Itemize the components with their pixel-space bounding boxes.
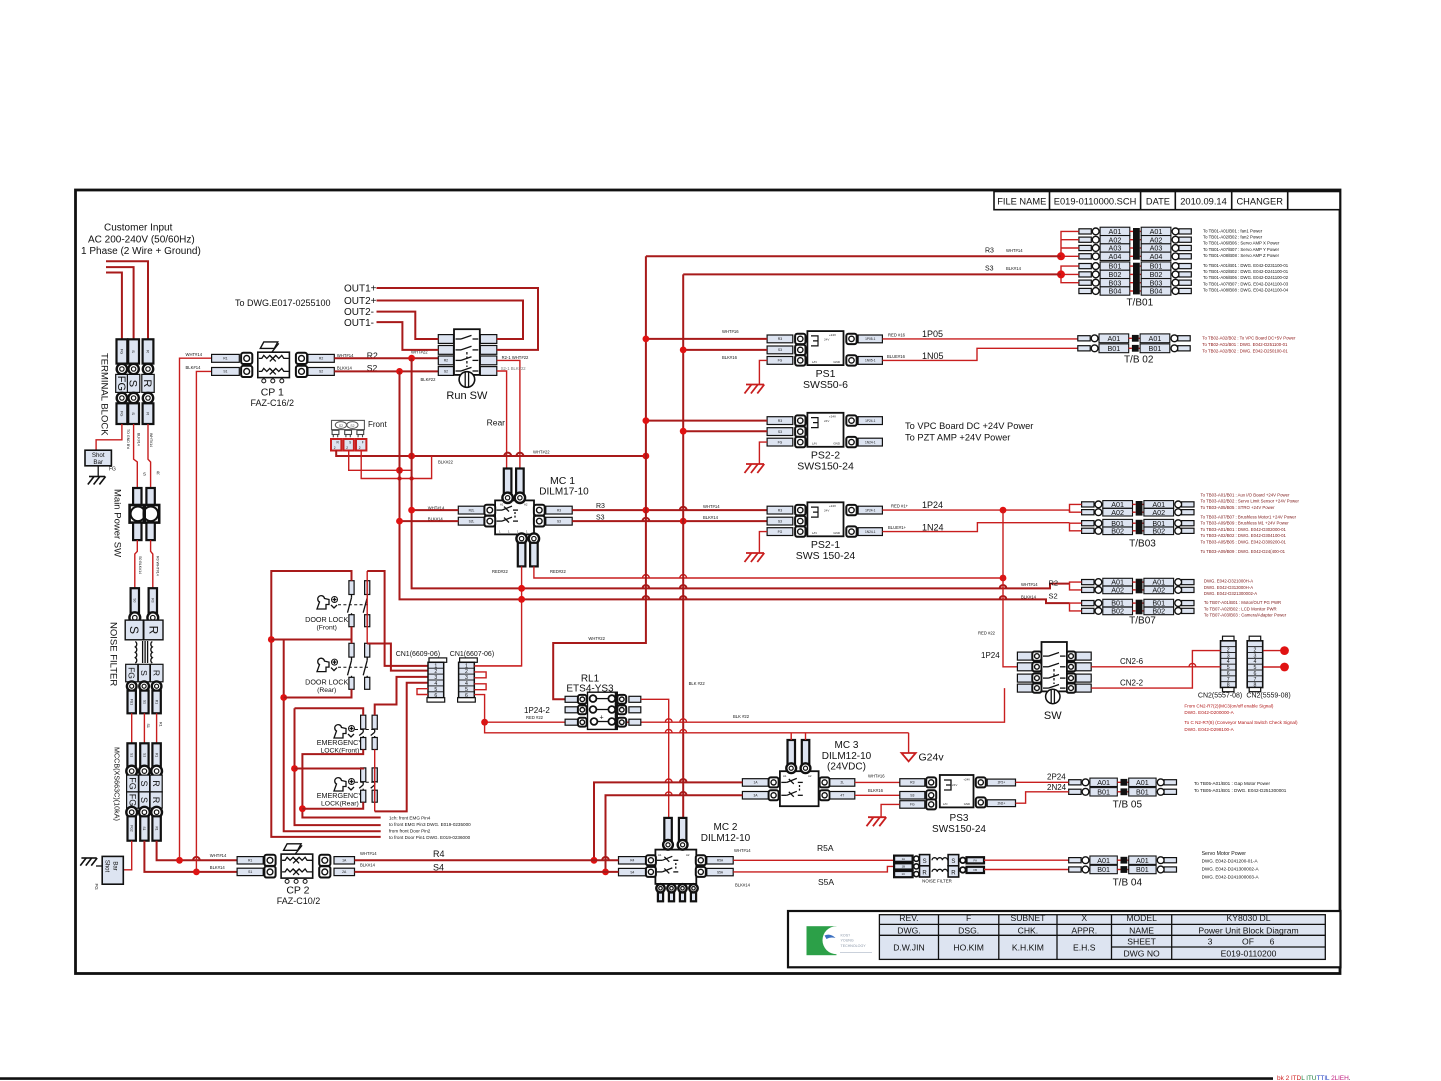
wire S to main power SW [134,424,138,488]
svg-text:BLUE#16: BLUE#16 [887,354,906,359]
terminal block T/B07 [1082,580,1094,585]
svg-text:B04: B04 [1109,287,1122,296]
svg-text:A1: A1 [500,503,504,507]
svg-text:SWS 150-24: SWS 150-24 [796,550,856,562]
svg-text:S: S [131,412,136,415]
svg-text:FG: FG [127,777,137,790]
wire MC3 out row1 to PS3 [855,781,900,783]
power supply PS3 [900,779,925,787]
svg-text:MC 3: MC 3 [835,740,859,751]
svg-text:BLK#16: BLK#16 [722,355,738,360]
power supply PS1 [767,335,793,343]
svg-text:R2: R2 [319,357,323,361]
svg-text:2L: 2L [841,781,845,785]
svg-text:To TB03-A07/B07 : Brushless M: To TB03-A07/B07 : Brushless Motor1 +24V … [1201,515,1297,520]
junction R2 [408,355,415,362]
svg-text:+24V: +24V [829,333,836,337]
hops on R2 S2 runs [643,585,650,588]
junction front pin2 [396,467,403,474]
wire S4 run [355,871,619,873]
ground PS3 [867,817,887,826]
svg-text:To TB03-A01/B01 : DWG. E042-D: To TB03-A01/B01 : DWG. E042-D302000-01 [1201,527,1287,532]
svg-text:DOOR LOCK: DOOR LOCK [305,615,348,624]
vertical bus TB03 to SW [1003,510,1017,667]
svg-text:1N05-1: 1N05-1 [865,359,876,363]
MC3 left lugs [742,779,768,787]
terminal block T/B05 [1069,780,1081,785]
svg-text:S: S [923,859,927,865]
wire R3 top run [646,255,1061,257]
svg-text:to front Door Pin1 DWG. E019-: to front Door Pin1 DWG. E019-0236000 [389,835,471,840]
svg-text:BLUE#1+: BLUE#1+ [888,525,907,530]
svg-text:CN2(5559-08): CN2(5559-08) [1246,693,1290,700]
svg-text:DWG NO: DWG NO [1123,948,1160,958]
svg-text:S2L: S2L [469,519,475,523]
svg-text:R5A: R5A [817,843,834,853]
noise filter lower boxes [126,664,138,682]
wire OUT1+ [377,288,539,350]
ground for shot bar 2 [96,865,102,867]
junction S1 bus [193,869,200,876]
svg-text:A2: A2 [524,503,528,507]
svg-text:S3: S3 [778,519,782,523]
svg-text:2P2+: 2P2+ [998,781,1006,785]
svg-text:1N24-1: 1N24-1 [865,440,876,444]
svg-text:1C: 1C [902,872,906,876]
svg-text:(Rear): (Rear) [317,687,336,694]
svg-text:WHT#14: WHT#14 [186,352,203,357]
svg-text:Bar: Bar [93,459,103,466]
svg-text:KOS?: KOS? [841,934,851,938]
svg-text:WHT#14: WHT#14 [210,853,227,858]
svg-text:Bar: Bar [112,861,118,870]
wire emergency rear col2 to CN1 [375,683,428,812]
junction A04 [1057,252,1065,260]
junction S4 [602,869,609,876]
MC1 left lugs [458,506,484,514]
svg-text:R: R [146,626,160,635]
wire R5A run [733,859,894,861]
svg-text:S3: S3 [985,266,994,273]
bottom page line [0,1077,1273,1080]
svg-text:2N2+: 2N2+ [997,801,1005,805]
svg-text:S0: S0 [133,598,137,602]
wire S5A run [733,866,894,872]
wire 1N05 run [882,348,1077,360]
svg-text:BLK #22: BLK #22 [733,714,750,719]
svg-text:To TB07-A03/B03 : Camera/Adapt: To TB07-A03/B03 : Camera/Adapter Power [1204,613,1287,618]
title block outline [788,911,1341,967]
title block grid [879,915,1325,960]
svg-text:L/N: L/N [943,802,947,806]
svg-text:Servo Motor Power: Servo Motor Power [1202,851,1247,857]
svg-text:R4: R4 [630,859,634,863]
wire front pin1 to WHT#22 run [336,451,646,457]
svg-text:B01: B01 [1107,344,1120,353]
wire emergency rear bottom [302,802,363,809]
svg-text:To TB07-A02/B02 : LCD Monitor: To TB07-A02/B02 : LCD Monitor PWR [1204,606,1277,611]
svg-text:BLK#14: BLK#14 [735,883,751,888]
terminal block column FG [117,339,128,363]
junction R4 [591,857,598,864]
svg-text:S: S [127,626,141,634]
terminal block column R [143,339,154,363]
front pin boxes [331,439,341,451]
bus 1P24-2 y722 [485,688,1005,722]
svg-text:To TB05-A01/B01 : DWG. E042-D2: To TB05-A01/B01 : DWG. E042-D251300001 [1194,788,1287,793]
contactor MC1 [495,500,534,534]
svg-text:FG2: FG2 [130,825,134,831]
svg-text:S5A: S5A [818,877,834,887]
svg-text:Front: Front [368,420,387,429]
ground PS1 [745,385,765,394]
contactor MC3 [780,771,819,806]
MC1 bottom lugs [516,533,526,543]
svg-text:R: R [951,870,956,876]
door lock rear [317,658,329,671]
svg-text:S: S [139,797,149,803]
svg-text:A02: A02 [1152,508,1165,517]
svg-text:24V: 24V [952,783,957,787]
svg-text:CP 1: CP 1 [261,387,284,399]
svg-text:DILM12-10: DILM12-10 [701,833,751,844]
svg-text:S1: S1 [142,700,146,704]
svg-text:2: 2 [346,446,348,450]
svg-text:FG: FG [115,376,127,391]
svg-text:from front Door Pin2: from front Door Pin2 [389,829,431,834]
svg-text:1P24-2: 1P24-2 [524,706,550,715]
front connector [332,420,365,429]
MC3 top lugs [788,740,796,765]
wire PS1 R3 in [646,338,767,340]
svg-text:DWG. E042-D241000003-A: DWG. E042-D241000003-A [1202,875,1260,880]
wire 1P05 run [882,338,1077,340]
svg-text:To TB03-A05/B05 : STRO +24V P: To TB03-A05/B05 : STRO +24V Power [1201,505,1276,510]
company logo [807,926,837,955]
wire T/B07 A stubs [1070,582,1082,590]
wire MCCB FG to shot bar 2 [123,841,131,870]
svg-text:1P24-1: 1P24-1 [865,419,876,423]
svg-text:Rear: Rear [487,418,506,428]
svg-text:WHT#14: WHT#14 [360,851,377,856]
svg-text:24V: 24V [824,337,829,341]
wire door front col1 bottom [351,627,353,640]
svg-text:FG: FG [109,467,116,473]
svg-text:To TB02-A01/B01 : DWG. E042-D2: To TB02-A01/B01 : DWG. E042-D251100-01 [1202,342,1288,347]
wire S2 run [334,370,438,372]
svg-text:To TB02-A02/B02 : To VPC Board: To TB02-A02/B02 : To VPC Board DC+5V Pow… [1202,336,1296,341]
svg-text:To PZT AMP +24V Power: To PZT AMP +24V Power [905,433,1010,443]
svg-text:GND: GND [833,531,841,535]
svg-text:S3: S3 [596,514,605,521]
svg-text:DWG. E042-D298100-A: DWG. E042-D298100-A [1184,727,1234,732]
svg-text:CHK.: CHK. [1018,925,1039,935]
svg-text:R3: R3 [985,248,994,255]
svg-text:MC 2: MC 2 [714,822,738,833]
svg-text:A01: A01 [1097,778,1110,787]
door area left bus 3 [284,640,381,832]
svg-text:6: 6 [1270,936,1275,946]
wire OUT2+ [377,301,524,340]
svg-text:S1: S1 [146,724,150,728]
wire 1P24 run [882,509,1069,511]
MC2 left lugs [619,857,647,864]
svg-text:S1: S1 [142,827,146,831]
svg-text:S3: S3 [910,794,914,798]
svg-text:BLK#16: BLK#16 [868,788,884,793]
svg-text:E019-0110200: E019-0110200 [1221,948,1277,958]
wire NF2 to TB04 B [984,869,1069,871]
svg-text:S: S [951,859,955,865]
wire MCCB S1 out [144,841,237,872]
svg-text:To TB01-A07/B07 : DWG. E042-D: To TB01-A07/B07 : DWG. E042-D241100-03 [1203,281,1289,286]
svg-text:F: F [362,441,364,445]
svg-text:S5A: S5A [717,870,724,874]
Run SW knob [459,372,475,388]
svg-text:S3: S3 [778,430,782,434]
wire customer input FG [106,273,122,340]
svg-text:RED #22: RED #22 [978,631,996,636]
svg-text:Main Power SW: Main Power SW [112,489,123,557]
svg-text:BLK#22: BLK#22 [421,377,437,382]
wire MC3 in row1 [594,782,742,860]
svg-text:R2: R2 [444,359,448,363]
svg-text:A01: A01 [1097,856,1110,865]
svg-text:DSG.: DSG. [958,925,979,935]
svg-text:S: S [139,780,149,786]
svg-text:24V: 24V [824,509,829,513]
wire R to main power SW [148,424,151,488]
MC1 right lugs [534,505,545,516]
wire MC1 S3 run to PS2-1 [572,520,767,522]
wire 2N24 [1016,792,1069,803]
connector CN1(6609-06) [429,658,447,662]
svg-text:R1: R1 [154,753,158,757]
svg-text:A01: A01 [1136,856,1149,865]
wire emergency rear top [295,767,364,770]
svg-text:R3: R3 [778,419,782,423]
svg-text:MODEL: MODEL [1126,913,1157,923]
svg-text:NOISE FILTER: NOISE FILTER [108,622,119,686]
svg-text:BLK#22: BLK#22 [438,460,454,465]
wires noise filter to MCCB [131,713,133,743]
svg-text:OUT1-: OUT1- [344,318,374,329]
wire R2-1 to MC1 [497,360,520,468]
main power SW [133,488,141,506]
svg-text:To TB05-A01/B01 : Gap Motor Po: To TB05-A01/B01 : Gap Motor Power [1194,781,1270,786]
wire PS2-1 FG ground [759,532,767,553]
svg-text:R: R [146,412,151,415]
svg-text:B01: B01 [1097,865,1110,874]
svg-text:RED #16: RED #16 [888,332,906,337]
svg-text:NAME: NAME [1129,925,1154,935]
svg-text:OUT2-: OUT2- [344,307,374,318]
noise filter [131,588,139,613]
svg-text:4T: 4T [840,793,844,797]
svg-text:2P24: 2P24 [1047,773,1066,782]
svg-text:2010.09.14: 2010.09.14 [1180,196,1227,206]
svg-text:Run SW: Run SW [446,390,488,402]
svg-text:WHT#14: WHT#14 [703,504,720,509]
noise filter coils [135,642,136,664]
G24V arrow [902,753,916,761]
svg-text:A04: A04 [1150,252,1163,261]
svg-text:REV.: REV. [899,913,918,923]
svg-text:FG: FG [778,440,783,444]
svg-text:Customer Input: Customer Input [104,223,173,234]
svg-text:T/B01: T/B01 [1126,298,1153,309]
svg-text:BLK#14: BLK#14 [337,366,353,371]
svg-text:R3: R3 [557,508,561,512]
junction door bus 3 [280,694,287,701]
wire door rear bottom [284,689,352,697]
wire MCCB R1 out [157,841,238,861]
wire CN1-1 pin5 pin6 jumper [417,689,428,695]
svg-text:D.W.JIN: D.W.JIN [893,943,925,953]
emergency lock front [334,725,346,738]
svg-text:To TB03-A09/B09 : Brushless M: To TB03-A09/B09 : Brushless M1 +24V Powe… [1201,521,1290,526]
svg-text:R1: R1 [158,722,162,727]
svg-text:B01: B01 [1136,787,1149,796]
wire CN1-2 pin2-3 jumper [474,672,486,678]
wire emergency front col2 to CN1 [375,677,428,715]
svg-text:R1: R1 [248,859,252,863]
svg-text:1N24: 1N24 [922,523,944,533]
svg-text:BLK #22: BLK #22 [689,681,706,686]
svg-text:NOISE FILTER: NOISE FILTER [922,879,952,884]
junction S2 [396,368,403,375]
svg-text:1 Phase (2 Wire + Ground): 1 Phase (2 Wire + Ground) [81,246,201,257]
svg-text:B01: B01 [1097,787,1110,796]
terminal block T/B02 [1078,336,1090,341]
drawing border frame [76,190,1341,974]
svg-text:S: S [139,670,149,676]
svg-text:CHANGER: CHANGER [1236,196,1283,206]
svg-text:R0 WHT#14: R0 WHT#14 [156,556,160,576]
svg-text:BLK#14: BLK#14 [1021,595,1037,600]
svg-text:R2-1 WHT#22: R2-1 WHT#22 [502,355,529,360]
svg-text:S: S [143,472,146,477]
wire PS3 FG ground [881,804,900,816]
svg-text:L/N: L/N [812,442,817,446]
wire 2P24 [1016,781,1069,783]
svg-text:TECHNOLOGY: TECHNOLOGY [841,944,867,948]
RL1 left lugs [565,696,578,702]
wire S3 top run [683,273,1061,275]
junction emergency mid [291,765,298,772]
svg-text:S4: S4 [630,870,634,874]
svg-text:DWG. E042-D241200-01-A: DWG. E042-D241200-01-A [1202,859,1259,864]
svg-text:B02: B02 [1111,607,1124,616]
svg-text:T/B07: T/B07 [1129,616,1156,627]
wire CN1-2 pin4-5 jumper [474,684,486,690]
svg-text:S2: S2 [1049,591,1058,600]
svg-text:1A: 1A [902,857,906,861]
svg-text:To TB01-A08/B08 : Servo AMP Z: To TB01-A08/B08 : Servo AMP Z Power [1203,253,1280,258]
wire PS1 S3 in [683,349,767,351]
wire NF2 to TB04 A [984,859,1069,861]
svg-text:Power Unit Block Diagram: Power Unit Block Diagram [1198,925,1298,935]
svg-text:1P24: 1P24 [981,651,1000,660]
svg-text:R1: R1 [154,700,158,704]
svg-text:A01: A01 [1107,334,1120,343]
svg-text:24V: 24V [824,419,829,423]
contactor MC2 [655,850,696,884]
svg-text:bk 2 lTDL lTUTTlL 2LlEH.: bk 2 lTDL lTUTTlL 2LlEH. [1277,1075,1351,1081]
wire CN2-2 [1091,651,1220,689]
svg-text:FG: FG [119,411,124,417]
svg-text:+: + [600,715,604,722]
ground PS2-2 [745,464,765,473]
svg-text:BLK#14: BLK#14 [1006,266,1022,271]
svg-text:R3: R3 [596,503,605,510]
bus R3 vertical [553,256,646,699]
svg-text:A01: A01 [1149,334,1162,343]
svg-text:(Front): (Front) [316,624,336,631]
svg-text:B02: B02 [1111,526,1124,535]
wire T/B03 A stubs [1070,504,1082,512]
svg-text:A01: A01 [1136,778,1149,787]
wire MC3 out row2 to PS3 [855,794,900,796]
svg-text:1ch: front EMG Pin4: 1ch: front EMG Pin4 [389,816,431,821]
svg-text:To TB03-A09/B09 : DWG. E042-D: To TB03-A09/B09 : DWG. E042-D24(400-01 [1201,549,1286,554]
emergency bus 5 [295,768,303,770]
wire T/B01 A stubs [1061,231,1079,256]
wire PS2-2 S3 in [683,430,767,432]
svg-text:FG1: FG1 [130,699,134,705]
svg-text:FG: FG [127,794,137,807]
svg-text:To TB01-A01/B01 : DWG. E042-D: To TB01-A01/B01 : DWG. E042-D231100-01 [1203,263,1289,268]
wire MC1 in R [412,509,459,511]
svg-text:R: R [151,780,161,787]
wire G24V drop [908,733,910,753]
svg-text:DOOR LOCK: DOOR LOCK [305,677,348,686]
svg-text:PS3: PS3 [950,813,969,824]
svg-text:S2-1 BLK#22: S2-1 BLK#22 [501,366,527,371]
svg-text:B01: B01 [1136,865,1149,874]
vertical bus S to CP1 [196,371,211,872]
door area left bus 2 [271,640,351,644]
svg-text:S2: S2 [350,424,354,428]
svg-text:To TB02-A02/B02 : DWG. E042-D2: To TB02-A02/B02 : DWG. E042-D250100-01 [1202,349,1288,354]
bus y733 to MC3 [485,722,909,733]
svg-text:FAZ-C10/2: FAZ-C10/2 [277,896,321,906]
wire front pin2 [349,451,412,471]
wire MC1 bottom lug1 down to CN1-2 [474,566,521,666]
svg-text:MCCB(XS663C)(10kA): MCCB(XS663C)(10kA) [113,747,122,821]
svg-text:(24VDC): (24VDC) [827,762,866,773]
svg-text:To TB03-A02/B02 : DWG. E042-D: To TB03-A02/B02 : DWG. E042-D304100-01 [1201,533,1287,538]
svg-text:CN1(6609-06): CN1(6609-06) [396,651,440,658]
wire main SW to noise filter R [151,540,153,588]
svg-text:L/N: L/N [812,360,817,364]
svg-text:OUT2+: OUT2+ [344,296,377,307]
svg-text:Shot: Shot [92,452,105,459]
svg-text:To TB03-A05/B05 : DWG. E042-D: To TB03-A05/B05 : DWG. E042-D309200-01 [1201,539,1287,544]
svg-text:A02: A02 [1111,508,1124,517]
shot bar 2 [102,856,123,884]
svg-text:BLK#14: BLK#14 [210,865,226,870]
svg-text:G24v: G24v [919,752,945,764]
ground for shot bar 1 [97,466,99,477]
vertical bus R to CP1 [180,358,212,860]
svg-text:SWS50-6: SWS50-6 [803,379,848,391]
wire MC1 bottom lug2 to TB03 bus [534,566,1003,578]
svg-text:1P05: 1P05 [922,329,943,339]
svg-text:FILE NAME: FILE NAME [997,196,1046,206]
svg-text:T/B 02: T/B 02 [1124,355,1154,366]
wire CN2b pin5 dot [1263,666,1281,668]
